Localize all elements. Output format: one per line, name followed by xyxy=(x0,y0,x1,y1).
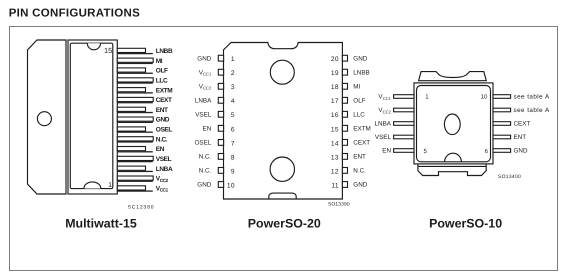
svg-text:EN: EN xyxy=(203,126,212,133)
powerso10 body outer xyxy=(414,83,493,164)
svg-text:OLF: OLF xyxy=(353,98,365,105)
multiwatt pin 14 lead xyxy=(117,58,153,62)
powerso20 top hole xyxy=(270,60,294,84)
svg-text:CEXT: CEXT xyxy=(514,121,531,128)
multiwatt pin 4 lower lead edge xyxy=(117,161,153,162)
multiwatt pin 15 lower lead edge xyxy=(117,53,153,54)
multiwatt bottom dome xyxy=(84,182,101,189)
svg-text:EXTM: EXTM xyxy=(156,87,172,94)
multiwatt pin 10 lower lead edge xyxy=(117,102,153,103)
powerso20 pin 4 lead xyxy=(218,97,223,103)
svg-text:9: 9 xyxy=(231,168,235,175)
multiwatt pin 13 lower lead edge xyxy=(117,73,153,74)
svg-text:17: 17 xyxy=(331,98,339,105)
powerso10 top slug tab xyxy=(419,72,487,81)
powerso20 pin 15 lead xyxy=(342,125,347,131)
svg-text:LNBA: LNBA xyxy=(375,121,392,128)
powerso20 pin 20 lead xyxy=(342,55,347,61)
multiwatt pin 1 lead xyxy=(117,186,145,190)
multiwatt pin 1 lower lead edge xyxy=(117,190,153,191)
powerso10 pin 7 lead xyxy=(493,135,511,139)
multiwatt pin 5 lower lead edge xyxy=(117,151,153,152)
svg-text:SO13390: SO13390 xyxy=(328,202,350,208)
svg-text:2: 2 xyxy=(231,70,235,77)
powerso20 pin 7 lead xyxy=(218,140,223,146)
powerso20 pin 12 lead xyxy=(342,168,347,174)
svg-text:LNBA: LNBA xyxy=(195,98,212,105)
svg-text:15: 15 xyxy=(104,46,112,55)
multiwatt pin 12 lead xyxy=(117,78,153,82)
svg-text:GND: GND xyxy=(353,55,367,62)
powerso10 body inner xyxy=(417,86,491,162)
multiwatt pin 11 lead xyxy=(117,88,145,92)
svg-text:N.C.: N.C. xyxy=(156,136,168,143)
svg-text:7: 7 xyxy=(231,140,235,147)
multiwatt pin 3 lead xyxy=(117,166,145,170)
svg-text:4: 4 xyxy=(231,98,235,105)
svg-text:EN: EN xyxy=(156,146,165,153)
svg-text:12: 12 xyxy=(331,168,339,175)
svg-text:N.C.: N.C. xyxy=(199,154,212,161)
svg-text:VSEL: VSEL xyxy=(195,112,212,119)
svg-text:VSEL: VSEL xyxy=(156,156,172,163)
svg-text:10: 10 xyxy=(481,94,488,101)
multiwatt pin 8 lead xyxy=(117,117,153,121)
multiwatt pin 5 lead xyxy=(117,147,145,151)
svg-text:CEXT: CEXT xyxy=(353,140,370,147)
multiwatt pin 2 lower lead edge xyxy=(117,181,153,182)
svg-text:1: 1 xyxy=(231,56,235,63)
svg-text:OSEL: OSEL xyxy=(194,140,211,147)
svg-text:CEXT: CEXT xyxy=(156,97,172,104)
powerso20 pin 5 lead xyxy=(218,111,223,117)
svg-text:14: 14 xyxy=(331,140,339,147)
powerso20 pin 14 lead xyxy=(342,140,347,146)
powerso20 pin 16 lead xyxy=(342,111,347,117)
svg-text:EXTM: EXTM xyxy=(353,126,371,133)
svg-text:6: 6 xyxy=(231,126,235,133)
multiwatt mounting hole xyxy=(37,112,51,126)
svg-text:PIN CONFIGURATIONS: PIN CONFIGURATIONS xyxy=(9,8,140,20)
powerso20 pin 17 lead xyxy=(342,97,347,103)
multiwatt pin 15 lead xyxy=(117,48,145,52)
powerso10 bottom dome xyxy=(445,153,462,162)
svg-text:see table A: see table A xyxy=(514,107,550,114)
multiwatt top index notch xyxy=(87,43,100,50)
multiwatt pin 10 lead xyxy=(117,97,153,101)
multiwatt heatsink tab MW xyxy=(28,40,67,194)
powerso20 pin 8 lead xyxy=(218,154,223,160)
svg-text:MI: MI xyxy=(353,84,360,91)
svg-text:15: 15 xyxy=(331,126,339,133)
powerso20 pin 11 lead xyxy=(342,182,347,188)
svg-text:OSEL: OSEL xyxy=(156,127,173,134)
powerso10 pin 10 lead xyxy=(493,95,511,99)
powerso10 pin 2 lead xyxy=(394,108,414,112)
svg-text:Multiwatt-15: Multiwatt-15 xyxy=(65,217,137,231)
svg-text:11: 11 xyxy=(331,182,339,189)
multiwatt pin 2 lead xyxy=(117,176,153,180)
powerso20 pin 3 lead xyxy=(218,83,223,89)
multiwatt pin 7 lead xyxy=(117,127,145,131)
multiwatt pin 8 lower lead edge xyxy=(117,122,153,123)
multiwatt pin 6 lead xyxy=(117,137,153,141)
svg-text:LLC: LLC xyxy=(353,112,365,119)
multiwatt pin 12 lower lead edge xyxy=(117,82,153,83)
multiwatt pin 9 lead xyxy=(117,107,145,111)
svg-text:EN: EN xyxy=(382,148,391,155)
powerso20 pin 1 lead xyxy=(218,55,223,61)
powerso10 pin 9 lead xyxy=(493,108,511,112)
svg-text:GND: GND xyxy=(197,182,211,189)
svg-text:SC12380: SC12380 xyxy=(128,205,155,211)
multiwatt pin 13 lead xyxy=(117,68,145,72)
svg-text:GND: GND xyxy=(514,148,528,155)
svg-text:PowerSO-10: PowerSO-10 xyxy=(429,217,502,231)
svg-text:GND: GND xyxy=(156,117,170,124)
multiwatt body outer xyxy=(68,40,117,194)
svg-text:20: 20 xyxy=(331,56,339,63)
powerso20 pin 18 lead xyxy=(342,83,347,89)
powerso20 pin 10 lead xyxy=(218,182,223,188)
multiwatt pin 7 lower lead edge xyxy=(117,132,153,133)
powerso10 pin 4 lead xyxy=(394,135,414,139)
multiwatt pin 14 lower lead edge xyxy=(117,63,153,64)
svg-text:ENT: ENT xyxy=(156,107,168,114)
powerso20 pin 9 lead xyxy=(218,168,223,174)
powerso20 bottom hole xyxy=(270,157,294,181)
multiwatt body inner xyxy=(70,43,113,188)
multiwatt pin 3 lower lead edge xyxy=(117,171,153,172)
svg-text:13: 13 xyxy=(331,154,339,161)
svg-text:LNBB: LNBB xyxy=(353,69,369,76)
multiwatt pin 6 lower lead edge xyxy=(117,141,153,142)
svg-text:16: 16 xyxy=(331,112,339,119)
svg-text:SO13400: SO13400 xyxy=(498,174,521,180)
powerso10 bottom slug tab xyxy=(418,164,486,176)
powerso10 pin 8 lead xyxy=(493,122,511,126)
powerso10 pin 3 lead xyxy=(394,122,414,126)
svg-text:LNBA: LNBA xyxy=(156,166,173,173)
svg-text:19: 19 xyxy=(331,70,339,77)
svg-text:GND: GND xyxy=(353,182,367,189)
svg-text:see table A: see table A xyxy=(514,94,550,101)
powerso10 pin 6 lead xyxy=(493,149,511,153)
svg-text:ENT: ENT xyxy=(353,154,366,161)
svg-text:MI: MI xyxy=(156,58,163,65)
svg-text:N.C.: N.C. xyxy=(199,168,212,175)
svg-text:PowerSO-20: PowerSO-20 xyxy=(248,217,321,231)
powerso20 bottom slug bump xyxy=(269,193,296,199)
svg-text:3: 3 xyxy=(231,84,235,91)
svg-text:8: 8 xyxy=(231,154,235,161)
powerso10 pin 1 lead xyxy=(394,95,414,99)
svg-text:OLF: OLF xyxy=(156,68,168,75)
powerso20 pin 19 lead xyxy=(342,69,347,75)
svg-text:10: 10 xyxy=(227,182,235,189)
svg-text:VSEL: VSEL xyxy=(375,134,392,141)
powerso20 pin 6 lead xyxy=(218,125,223,131)
svg-text:N.C.: N.C. xyxy=(353,168,366,175)
powerso20 pin 13 lead xyxy=(342,154,347,160)
multiwatt pin 11 lower lead edge xyxy=(117,92,153,93)
svg-text:LNBB: LNBB xyxy=(156,48,173,55)
powerso20 body xyxy=(224,43,343,200)
svg-text:18: 18 xyxy=(331,84,339,91)
svg-text:GND: GND xyxy=(197,55,211,62)
powerso20 pin 2 lead xyxy=(218,69,223,75)
svg-text:LLC: LLC xyxy=(156,78,168,85)
powerso10 pin 5 lead xyxy=(394,149,414,153)
powerso10 bottom tab line xyxy=(418,165,486,167)
powerso10 center ellipse xyxy=(444,114,460,135)
svg-text:1: 1 xyxy=(108,182,112,189)
multiwatt pin 9 lower lead edge xyxy=(117,112,153,113)
svg-text:5: 5 xyxy=(231,112,235,119)
multiwatt pin 4 lead xyxy=(117,156,153,160)
svg-text:ENT: ENT xyxy=(514,134,527,141)
